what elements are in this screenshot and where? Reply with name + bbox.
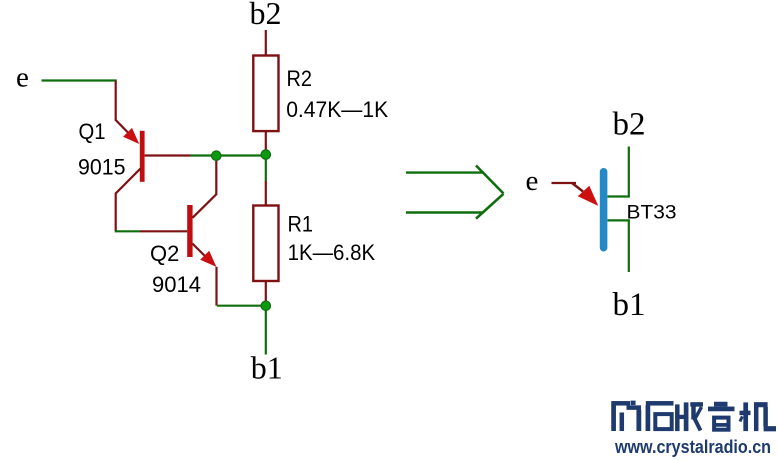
svg-text:b2: b2: [250, 0, 282, 31]
svg-text:e: e: [526, 165, 539, 197]
svg-text:R2: R2: [287, 66, 313, 91]
svg-text:b2: b2: [613, 107, 646, 143]
svg-text:0.47K—1K: 0.47K—1K: [286, 97, 388, 122]
svg-text:e: e: [16, 62, 29, 94]
svg-text:9014: 9014: [152, 272, 201, 297]
svg-text:b1: b1: [613, 287, 646, 323]
svg-text:BT33: BT33: [627, 202, 677, 224]
svg-text:Q1: Q1: [79, 119, 106, 144]
svg-text:1K—6.8K: 1K—6.8K: [288, 240, 376, 265]
svg-text:Q2: Q2: [150, 241, 179, 266]
svg-text:www.crystalradio.cn: www.crystalradio.cn: [614, 437, 771, 457]
svg-text:9015: 9015: [78, 155, 126, 180]
svg-text:R1: R1: [288, 212, 314, 237]
svg-text:b1: b1: [251, 350, 283, 386]
